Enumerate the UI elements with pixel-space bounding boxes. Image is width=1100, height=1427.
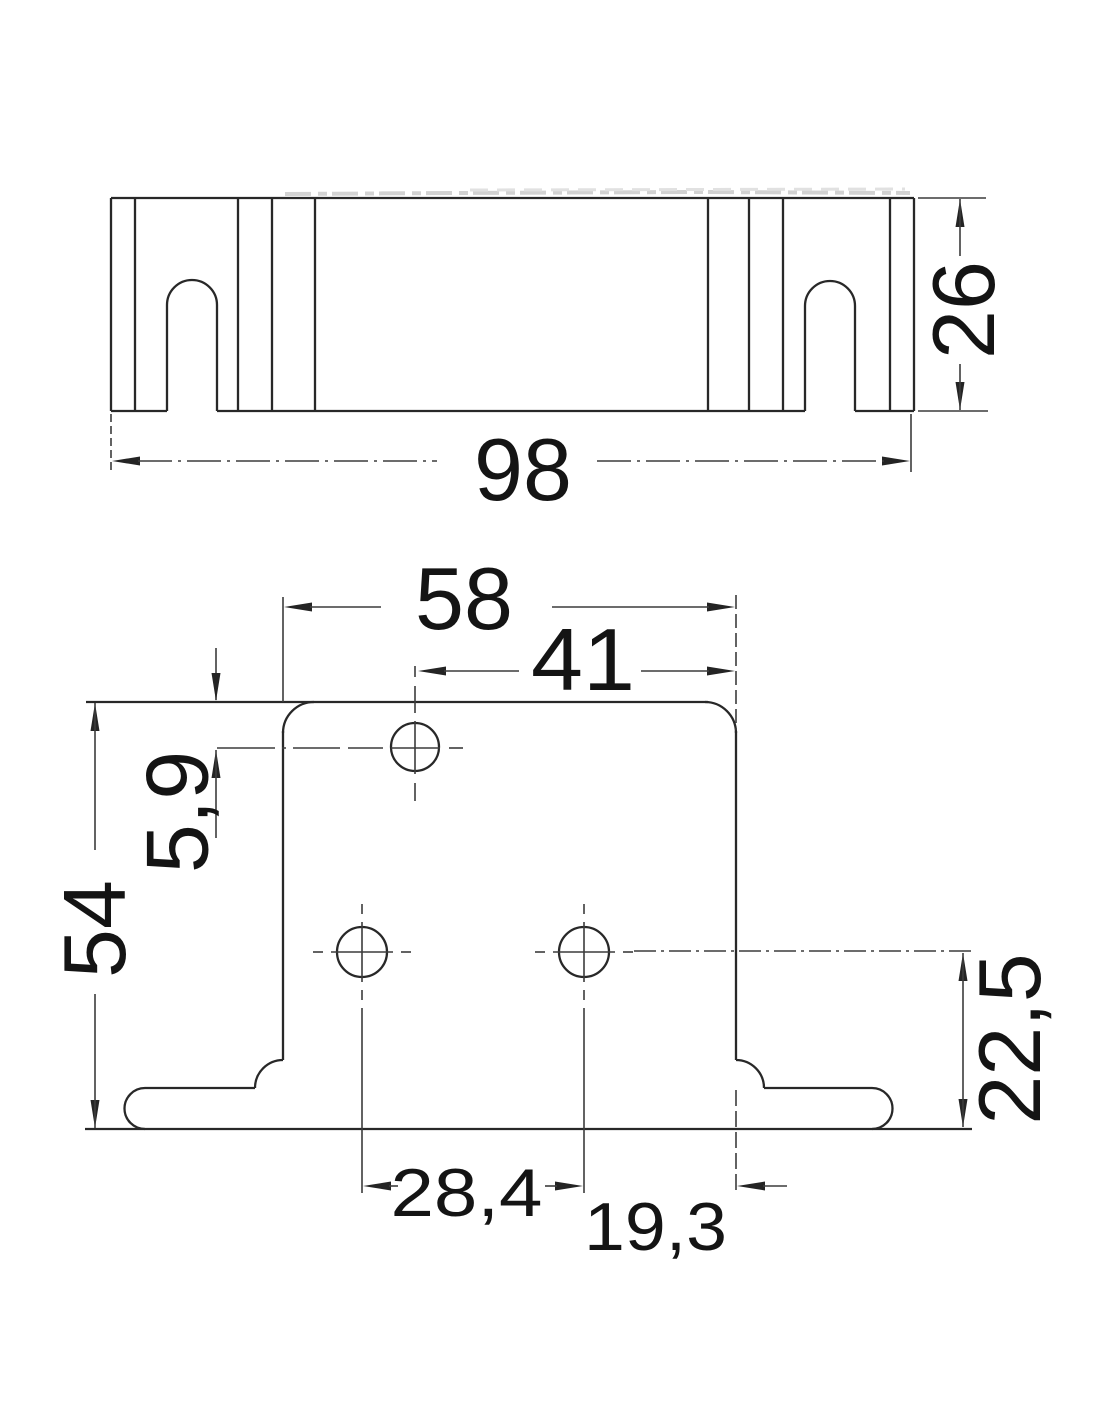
- front view: top-right corner radius: [705, 702, 736, 733]
- dimension 26: bottom arrow: [956, 382, 965, 410]
- dimension 41: left arrow: [418, 667, 446, 676]
- hole H1 horizontal centerline: [217, 747, 463, 749]
- front view: left flange top edge: [145, 1087, 255, 1089]
- dimension 19,3: extension line: [735, 1090, 737, 1193]
- svg-text:98: 98: [474, 420, 572, 519]
- dimension 19,3: value label: [584, 1189, 727, 1265]
- top view: inner vertical line e: [707, 198, 709, 411]
- dimension 19,3: arrow: [737, 1182, 787, 1191]
- dimension 5,9: upper line and down arrow: [212, 648, 221, 701]
- top view: top edge: [111, 197, 914, 199]
- front view: right fillet: [736, 1060, 764, 1088]
- svg-text:41: 41: [531, 610, 635, 709]
- dimension 58: line: [310, 606, 709, 608]
- front view: left body edge: [282, 731, 284, 1060]
- svg-text:28,4: 28,4: [391, 1155, 543, 1231]
- front view: top-left corner radius: [283, 702, 314, 733]
- front view: top edge with 54 and 5,9 extension: [86, 701, 708, 703]
- dimension 41: right arrow: [707, 667, 735, 676]
- dimension 98: right extension line: [910, 414, 912, 472]
- svg-text:5,9: 5,9: [128, 751, 227, 873]
- top view: bottom edge segments: [111, 410, 914, 412]
- front view: right flange rounded end: [872, 1088, 892, 1129]
- dimension 22,5: line: [962, 953, 964, 1127]
- dimension 98: line: [138, 460, 884, 462]
- svg-text:58: 58: [415, 549, 513, 648]
- hole H3 centerline extension to 22,5 dimension: [634, 950, 971, 952]
- dimension 98: right arrow: [882, 457, 910, 466]
- dimension 22,5: top arrow: [959, 953, 968, 981]
- svg-text:19,3: 19,3: [584, 1189, 727, 1265]
- hole H1 vertical centerline: [414, 666, 416, 801]
- top view: inner vertical line d: [314, 198, 316, 411]
- dimension 58: right extension line: [735, 595, 737, 730]
- front view: left flange rounded end: [125, 1088, 146, 1129]
- dimension 98: left arrow: [112, 457, 140, 466]
- top view: inner vertical line g: [782, 198, 784, 411]
- svg-text:54: 54: [45, 880, 144, 978]
- top view: left slot: [167, 280, 217, 411]
- dimension 54: line: [94, 703, 96, 1128]
- dimension 58: right arrow: [707, 603, 735, 612]
- dimension 58: left arrow: [284, 603, 312, 612]
- hole H3 (right): [559, 927, 609, 977]
- front view: right body edge: [735, 731, 737, 1060]
- dimension 22,5: bottom arrow: [959, 1099, 968, 1127]
- dimension 54: top arrow: [91, 703, 100, 731]
- dimension 54: value label: [45, 880, 144, 978]
- front view: left fillet: [255, 1060, 283, 1088]
- dimension 26: top extension line: [918, 197, 986, 199]
- svg-text:22,5: 22,5: [960, 953, 1059, 1124]
- dimension 28,4: right arrow: [555, 1182, 583, 1191]
- dimension 28,4: left arrow: [363, 1182, 391, 1191]
- front view: bottom edge with extensions: [85, 1128, 972, 1130]
- hole H3 vertical centerline: [583, 904, 585, 1000]
- dimension 58: left extension line: [282, 597, 284, 702]
- dimension 26: value label: [914, 261, 1013, 359]
- top view: inner vertical line f: [748, 198, 750, 411]
- top view: inner vertical line c: [271, 198, 273, 411]
- dimension 26: top arrow: [956, 199, 965, 227]
- hole H2 vertical centerline: [361, 904, 363, 1000]
- dimension 41: line: [444, 670, 709, 672]
- dimension 5,9: value label: [128, 751, 227, 873]
- hole H2 (left): [337, 927, 387, 977]
- dimension 28,4: line: [389, 1185, 557, 1187]
- top view: inner vertical line h: [889, 198, 891, 411]
- top view: right slot: [805, 281, 855, 411]
- dimension 28,4: left extension line: [361, 1008, 363, 1193]
- hole H2 horizontal centerline: [313, 951, 411, 953]
- top view: right edge: [913, 198, 915, 411]
- dimension 98: left extension line: [110, 414, 112, 472]
- dimension 58: value label: [415, 549, 513, 648]
- dimension 28,4: right extension line: [583, 1008, 585, 1193]
- hole H1 (top): [391, 723, 439, 771]
- dimension 54: bottom arrow: [91, 1100, 100, 1128]
- dimension 41: value label: [531, 610, 635, 709]
- top view: inner vertical line b: [237, 198, 239, 411]
- front view: right flange top edge: [764, 1087, 872, 1089]
- dimension 98: value label: [474, 420, 572, 519]
- svg-text:26: 26: [914, 261, 1013, 359]
- top view: left edge: [110, 198, 112, 411]
- dimension 5,9: lower line and up arrow: [212, 750, 221, 838]
- dimension 22,5: value label: [960, 953, 1059, 1124]
- scan smudge above top view: [285, 189, 910, 194]
- top view: inner vertical line a: [134, 198, 136, 411]
- dimension 26: line: [959, 199, 961, 410]
- hole H3 horizontal centerline: [535, 951, 633, 953]
- dimension 26: bottom extension line: [918, 410, 988, 412]
- dimension 28,4: value label: [391, 1155, 543, 1231]
